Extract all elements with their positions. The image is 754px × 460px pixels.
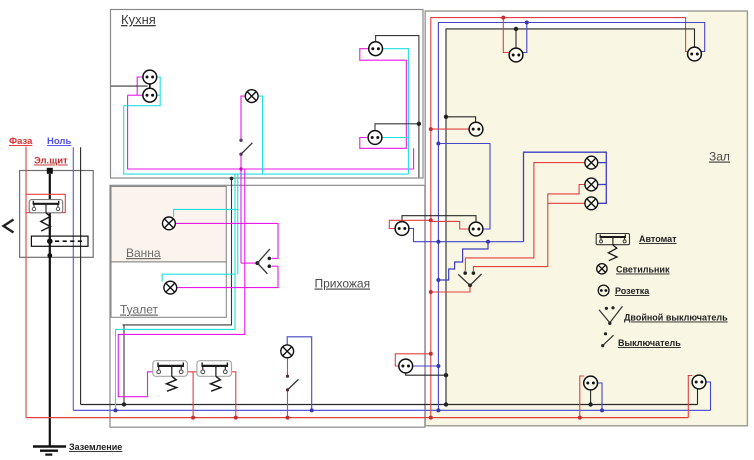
wire red stub зал wall socket from riser bbox=[431, 128, 469, 130]
node ground junction (465.2,273.1) bbox=[463, 271, 467, 275]
svg-text:Заземление: Заземление bbox=[69, 442, 122, 452]
wire blue hall bottom socket bbox=[413, 365, 439, 367]
wire red hall lamp to switch bbox=[287, 358, 289, 376]
room Прихожая outline bbox=[110, 185, 425, 427]
wire red riser breaker mid bbox=[183, 371, 201, 373]
breaker QF2 bbox=[197, 361, 232, 392]
node neutral junction bbox=[114, 408, 118, 412]
svg-text:Прихожая: Прихожая bbox=[315, 277, 371, 291]
wire red bottom-right socket bbox=[688, 376, 692, 418]
svg-text:Ванна: Ванна bbox=[126, 246, 161, 260]
wire neutral bus blue horizontal bbox=[73, 409, 710, 411]
svg-text:Туалет: Туалет bbox=[120, 303, 158, 317]
wire blue зал wall socket loop bbox=[438, 144, 490, 230]
wire ground riser wall bbox=[123, 178, 232, 404]
legend switch symbol bbox=[601, 332, 613, 347]
node ground junction (516,28.9) bbox=[514, 27, 518, 31]
node neutral junction (526.8,22.5) bbox=[525, 21, 529, 25]
svg-text:Ноль: Ноль bbox=[47, 136, 71, 147]
wire magenta to left sockets bbox=[128, 94, 143, 96]
socket зал wall2 (same as red stub target) bbox=[469, 222, 483, 236]
wire magenta bath lamp bbox=[175, 223, 278, 258]
wire blue lamps loop bbox=[524, 152, 607, 242]
svg-text:Выключатель: Выключатель bbox=[618, 338, 681, 348]
wire blue riser + top run bbox=[438, 23, 704, 411]
wire red lamp1 circuit bbox=[465, 163, 585, 271]
wire blue bottom-left socket bbox=[597, 383, 602, 410]
wire phase bus red horizontal bbox=[26, 417, 688, 419]
wire red stub to left contact bbox=[26, 212, 34, 214]
node phase junction (287.5,417.6) bbox=[286, 416, 290, 420]
wire red riser + top run bbox=[431, 18, 689, 418]
wire blue staircase to neutral riser bbox=[438, 242, 488, 280]
svg-text:Светильник: Светильник bbox=[616, 265, 670, 275]
wire kitchen cyan bus bbox=[124, 106, 409, 174]
node phase junction (430.8,353.8) bbox=[429, 352, 433, 356]
socket зал wall bbox=[469, 122, 483, 136]
panel box Эл.щит bbox=[20, 171, 94, 258]
node phase junction (430.8,417.6) bbox=[429, 416, 433, 420]
legend lamp symbol bbox=[597, 264, 607, 274]
socket kitchen right upper bbox=[369, 42, 383, 56]
legend socket symbol bbox=[598, 285, 609, 296]
socket kitchen left upper bbox=[143, 70, 157, 84]
node neutral junction (311.7,410.4) bbox=[310, 408, 314, 412]
socket kitchen right lower bbox=[368, 131, 382, 145]
double switch hallway bbox=[255, 249, 271, 274]
socket зал top-right bbox=[688, 47, 702, 61]
svg-text:Кухня: Кухня bbox=[121, 12, 156, 27]
node neutral junction (438.4,280) bbox=[436, 278, 440, 282]
node ground junction (446,116.8) bbox=[444, 115, 448, 119]
wire phase red vertical bbox=[25, 147, 27, 418]
node phase junction (430.8,292) bbox=[429, 290, 433, 294]
node ground junction (231.5,178.4) bbox=[230, 177, 234, 181]
node ground junction (124,404.4) bbox=[122, 402, 126, 406]
node ground junction (613,307.8) bbox=[611, 306, 614, 309]
wire magenta double switch upper contact stub bbox=[272, 257, 279, 259]
node junction (49.8,241.2) bbox=[47, 238, 53, 244]
wire blue bottom-right socket bbox=[706, 382, 711, 410]
wire red double switch common bbox=[431, 287, 470, 293]
wire ground black vertical bbox=[80, 147, 82, 404]
node input square bbox=[47, 168, 53, 174]
wire neutral blue vertical bbox=[72, 147, 74, 410]
wire magenta toilet lamp bbox=[177, 266, 278, 287]
wire ground bus black horizontal bbox=[81, 404, 698, 406]
socket hallway bottom bbox=[399, 359, 413, 373]
wire magenta double switch lower contact stub bbox=[272, 265, 279, 267]
node neutral junction (438.4,143.5) bbox=[436, 142, 440, 146]
node ground junction (473.4,273.1) bbox=[472, 271, 476, 275]
node phase junction (235.8,417.6) bbox=[234, 416, 238, 420]
node neutral junction (438.4,366) bbox=[436, 364, 440, 368]
wire black hall bottom socket bbox=[406, 373, 446, 375]
wire cyan riser 1 bbox=[116, 174, 236, 410]
switch kitchen bbox=[239, 139, 242, 142]
wire cyan toilet lamp bbox=[162, 274, 235, 281]
room Зал outline bbox=[425, 11, 747, 426]
wire cyan riser 2 bbox=[237, 174, 239, 274]
lamp зал 2 bbox=[585, 178, 598, 191]
lamp toilet bbox=[164, 281, 177, 294]
node magenta junction kitchen bus bbox=[239, 167, 242, 170]
wire red hall bottom socket bbox=[395, 354, 431, 366]
room Туалет outline bbox=[111, 262, 226, 317]
socket зал bottom-left bbox=[584, 376, 598, 390]
wire black bottom-right socket bbox=[697, 389, 699, 405]
node ground junction (269.3,258.4) bbox=[268, 257, 272, 261]
lamp bath bbox=[163, 217, 176, 230]
breaker QF1 bbox=[153, 361, 188, 392]
wire main black vertical bbox=[49, 174, 51, 447]
node neutral junction (488,241.7) bbox=[486, 240, 490, 244]
terminal strip bbox=[31, 236, 88, 246]
svg-text:Эл.щит: Эл.щит bbox=[34, 156, 68, 167]
node neutral junction (602,410.4) bbox=[600, 408, 604, 412]
wire red lamps 2+3 circuit bbox=[473, 203, 585, 271]
node ground junction (606.4,308.3) bbox=[605, 307, 608, 310]
room Ванна outline bbox=[111, 187, 226, 262]
node ground junction (470,285.4) bbox=[468, 284, 472, 288]
wire red loop around breaker bbox=[26, 194, 65, 212]
switch hallway bbox=[286, 375, 289, 378]
node ground junction (446,375.2) bbox=[444, 373, 448, 377]
node ground junction (257.4,263.1) bbox=[255, 261, 259, 265]
lamp kitchen bbox=[245, 90, 258, 103]
wire red зал wall socket bbox=[431, 221, 469, 229]
wire ground kitchen right sockets bbox=[376, 36, 419, 178]
wire blue hall lamp bbox=[287, 337, 312, 411]
wire magenta to double switch common bbox=[241, 262, 256, 264]
socket зал bottom-right bbox=[692, 375, 706, 389]
node phase junction (579.8,417.6) bbox=[578, 416, 582, 420]
node switch contact (287.5,389.9) bbox=[286, 388, 289, 391]
wire link between left sockets bbox=[149, 84, 151, 90]
node ground junction (590.6,404.5) bbox=[588, 402, 592, 406]
socket kitchen left lower bbox=[143, 88, 157, 102]
wire ground between wall sockets bbox=[402, 216, 476, 223]
wire magenta riser 2 bbox=[118, 169, 245, 397]
node dot bottom of panel bbox=[47, 253, 52, 258]
node ground junction (446,404.5) bbox=[444, 402, 448, 406]
wire red riser breaker right bbox=[227, 372, 236, 418]
wire black bottom-left socket bbox=[590, 390, 592, 405]
wire black riser + top run bbox=[446, 29, 695, 405]
wire black drop top-left socket bbox=[515, 29, 517, 48]
svg-text:Автомат: Автомат bbox=[639, 234, 677, 244]
node ground junction (605.5,333.8) bbox=[604, 332, 607, 335]
meter symbol < bbox=[4, 220, 14, 233]
lamp зал 3 bbox=[585, 197, 598, 210]
svg-text:Двойной выключатель: Двойной выключатель bbox=[624, 313, 728, 323]
wire kitchen magenta bus bbox=[128, 95, 414, 169]
room Кухня outline bbox=[111, 10, 424, 179]
lamp hallway bbox=[281, 345, 294, 358]
wire cyan right loop kitchen bbox=[383, 49, 409, 174]
socket hallway wall bbox=[395, 222, 409, 236]
wire blue drop top-left socket bbox=[522, 23, 527, 53]
svg-text:Розетка: Розетка bbox=[615, 286, 650, 296]
node neutral junction (438.4,241.7) bbox=[436, 240, 440, 244]
svg-text:Зал: Зал bbox=[709, 150, 730, 164]
breaker QF main in panel bbox=[29, 200, 63, 231]
node phase junction (503.3,17.6) bbox=[501, 16, 505, 20]
wire red drop top-left socket bbox=[503, 18, 509, 53]
node ground junction (418.9,123.8) bbox=[417, 122, 421, 126]
legend double switch symbol bbox=[599, 306, 623, 325]
node ground junction (609.8,323.3) bbox=[608, 322, 611, 325]
wire magenta kitchen lamp riser bbox=[241, 96, 245, 140]
wire black зал wall socket bbox=[446, 117, 476, 123]
wire red hall wall socket bbox=[389, 220, 431, 228]
wire cyan bath lamp bbox=[174, 209, 238, 216]
wire ground stub left sockets bbox=[111, 85, 148, 87]
node neutral junction (438.4,410.4) bbox=[436, 408, 440, 412]
node switch contact (241,154.2) bbox=[239, 153, 242, 156]
legend breaker symbol bbox=[596, 234, 629, 261]
wire magenta right loop kitchen bbox=[360, 49, 407, 149]
wire cyan left socket loop bbox=[124, 77, 161, 106]
wire blue hall wall socket bbox=[409, 229, 524, 242]
white margin strip left of Зал bbox=[426, 28, 446, 408]
double switch зал bbox=[458, 271, 481, 287]
ground symbol bbox=[33, 445, 66, 448]
white margin strip top of Зал bbox=[426, 12, 688, 28]
node phase junction (430.8,129.1) bbox=[429, 127, 433, 131]
svg-text:Фаза: Фаза bbox=[9, 136, 33, 147]
lamp зал 1 bbox=[585, 156, 598, 169]
node phase junction (193.1,417.6) bbox=[191, 416, 195, 420]
node ground junction (269.3,266.2) bbox=[268, 264, 272, 268]
wire red bottom-left socket bbox=[580, 376, 584, 418]
node ground junction (602.7,345.6) bbox=[601, 344, 604, 347]
wire cyan kitchen lamp drop bbox=[258, 96, 263, 174]
socket зал top-left bbox=[509, 48, 523, 62]
node phase junction (430.8,220.3) bbox=[429, 218, 433, 222]
